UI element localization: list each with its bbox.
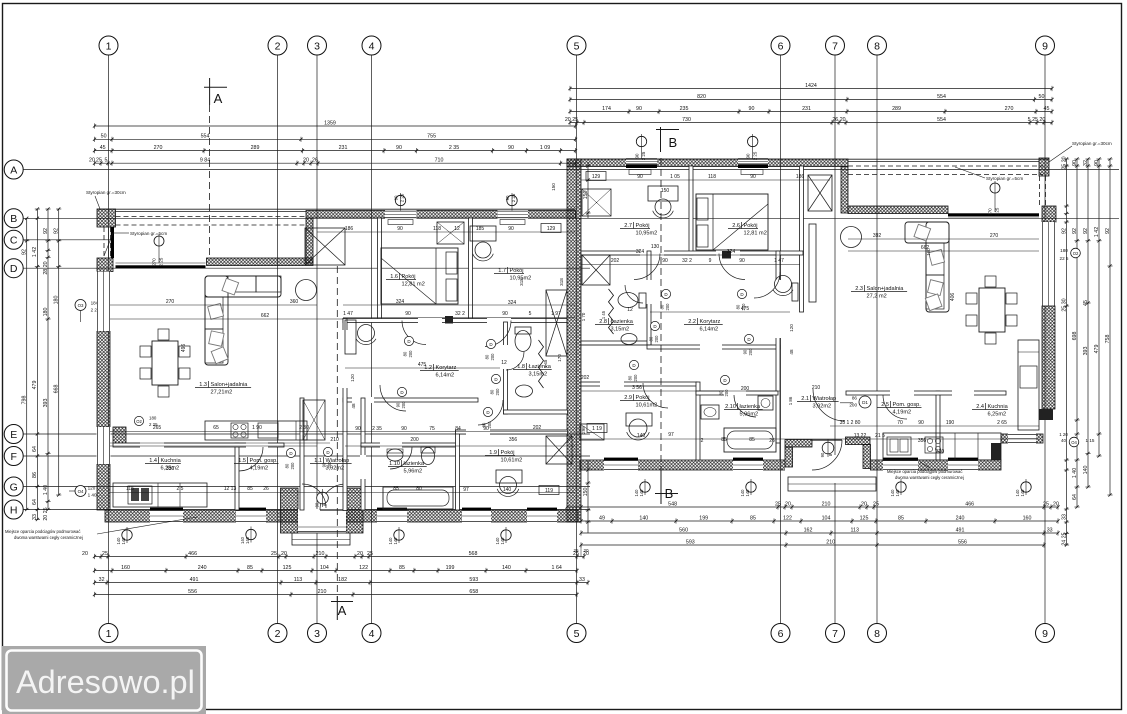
grid row C circle [4,230,23,249]
section A dashed line upper [209,105,211,258]
svg-text:140: 140 [1020,489,1025,497]
grid column 2 bottom circle [268,624,287,643]
svg-text:2: 2 [275,628,281,640]
svg-text:4: 4 [369,40,375,52]
svg-text:20 25: 20 25 [43,507,49,520]
unit1 wall bed1.6/bed1.7 [469,218,473,320]
svg-text:240: 240 [956,515,965,521]
svg-text:200: 200 [633,374,638,382]
svg-text:45: 45 [100,145,106,151]
svg-text:20: 20 [583,548,589,553]
grid row F line [23,455,590,457]
svg-text:84: 84 [455,426,461,432]
unit2 interior dimension texts [581,172,1007,456]
svg-text:92: 92 [54,228,60,234]
unit1 wall wiatrolap left [300,398,304,510]
unit2 terrace roof dashed [848,166,1046,206]
svg-text:200: 200 [410,437,419,443]
unit1 xbox room1.9 [546,436,572,464]
unit2 bottom wall window 1 [604,458,638,471]
svg-text:1 45: 1 45 [601,310,606,319]
svg-text:1.10: 1.10 [389,461,400,467]
unit1 chimney block [445,316,453,324]
svg-text:12,81 m2: 12,81 m2 [402,282,425,288]
svg-text:90: 90 [1072,160,1078,166]
svg-text:2 25: 2 25 [400,193,405,202]
section A top marker [204,78,227,106]
svg-text:26: 26 [263,486,269,492]
svg-text:120: 120 [789,324,794,332]
svg-text:289: 289 [892,106,901,112]
svg-text:210: 210 [316,551,325,557]
svg-text:820: 820 [697,94,706,100]
unit2 shower bath2.8 [582,255,610,285]
svg-text:180: 180 [43,308,49,317]
room label 1.1 [310,457,352,472]
svg-text:140: 140 [634,489,639,497]
svg-text:26 20: 26 20 [832,117,845,123]
svg-text:202: 202 [533,425,542,431]
svg-text:324: 324 [636,249,645,255]
grid column 3 top circle [308,36,327,55]
svg-text:593: 593 [686,539,695,545]
unit1 sink bath1.8 [516,385,533,397]
svg-text:1 40: 1 40 [43,485,49,495]
svg-text:210: 210 [330,437,339,443]
grid row F circle [4,447,23,466]
svg-text:658: 658 [469,589,478,595]
svg-text:25 20: 25 20 [1061,156,1067,169]
svg-text:2 35: 2 35 [449,145,459,151]
svg-text:G: G [10,481,18,493]
svg-text:140: 140 [502,565,511,571]
unit1 toilet bath1.8 [515,327,531,352]
svg-text:86: 86 [32,472,38,478]
svg-text:Styropian gr.=5cm: Styropian gr.=5cm [130,231,167,236]
svg-text:160: 160 [1023,515,1032,521]
svg-text:2 5: 2 5 [177,486,184,492]
svg-text:80: 80 [485,354,490,359]
svg-text:D: D [10,263,18,275]
svg-text:26: 26 [312,158,318,164]
grid row H line [23,509,590,511]
svg-text:85: 85 [721,437,727,443]
svg-text:85: 85 [247,486,253,492]
svg-text:łazienka: łazienka [740,404,761,410]
unit1 entrance recess walls [281,488,364,533]
svg-text:45: 45 [1044,106,1050,112]
svg-text:556: 556 [958,539,967,545]
unit2 door bed2.6 [719,254,747,311]
svg-text:27,21m2: 27,21m2 [211,390,233,396]
svg-text:491: 491 [956,527,965,533]
unit1 salon glazing vertical [109,227,115,258]
svg-text:90: 90 [508,226,514,232]
unit1 entrance door arc [320,484,346,510]
note podmurowka right [887,462,964,480]
svg-text:B: B [669,135,678,150]
svg-text:25: 25 [873,501,879,507]
svg-text:2.8: 2.8 [599,319,607,325]
mid dim column party top [551,162,591,218]
svg-text:140: 140 [500,537,505,545]
unit1 door kitchen [239,447,263,471]
svg-text:324: 324 [396,299,405,305]
svg-text:393: 393 [43,399,49,408]
grid line 5 [576,55,578,624]
unit2 top exterior wall [567,159,848,167]
svg-text:20: 20 [89,158,95,164]
room label 2.7 [620,222,657,237]
unit1 top wall window W2 [498,210,529,225]
svg-text:2 35: 2 35 [372,426,382,432]
svg-text:330: 330 [166,466,175,472]
unit2 bottom wall window 3 [883,458,918,471]
svg-text:270: 270 [990,233,999,239]
svg-text:12: 12 [454,226,460,232]
unit2 wiatrolap inner door arc [813,389,845,421]
svg-text:33: 33 [1061,514,1067,520]
svg-text:9: 9 [1042,40,1048,52]
unit2 dining table [966,276,1017,344]
svg-text:2 25: 2 25 [995,207,1000,216]
svg-text:4,19m2: 4,19m2 [250,466,269,472]
unit1 wall kitchen/pomgosp [235,443,239,510]
grid column 5 bottom circle [567,624,586,643]
svg-text:dwoma warstwami cegły ceramicz: dwoma warstwami cegły ceramicznej [895,475,964,480]
svg-text:12,81 m2: 12,81 m2 [744,231,767,237]
room label 2.10 [724,403,763,418]
note podmurowka left [5,517,197,540]
svg-text:1: 1 [106,40,112,52]
dimension row left-bottom fine [93,565,579,573]
svg-text:118: 118 [433,226,441,232]
svg-text:6: 6 [778,628,784,640]
svg-text:1.7: 1.7 [498,268,506,274]
svg-text:85: 85 [750,515,756,521]
unit2 top wall window W2 [738,158,768,175]
unit1 terrace roof edge lines [97,209,575,211]
svg-text:186: 186 [796,174,805,180]
svg-text:140: 140 [637,433,646,439]
svg-text:698: 698 [1072,332,1078,341]
svg-text:593: 593 [469,577,478,583]
svg-text:90: 90 [636,106,642,112]
svg-text:80: 80 [416,486,422,492]
svg-text:50: 50 [1039,94,1045,100]
svg-text:80: 80 [285,463,290,468]
svg-text:182: 182 [338,577,347,583]
svg-text:4: 4 [369,628,375,640]
svg-text:80: 80 [490,389,495,394]
grid column 4 bottom circle [362,624,381,643]
svg-text:1.3: 1.3 [199,382,207,388]
svg-text:dwoma warstwami cegły ceramicz: dwoma warstwami cegły ceramicznej [14,535,83,540]
svg-text:O3: O3 [78,303,84,308]
svg-text:Salon+jadalnia: Salon+jadalnia [867,286,905,292]
svg-text:92: 92 [1083,228,1089,234]
grid column 5 top circle [567,36,586,55]
svg-text:1.8: 1.8 [517,364,525,370]
svg-text:90: 90 [749,106,755,112]
svg-text:90: 90 [502,311,508,317]
svg-text:25: 25 [102,551,108,557]
svg-text:Kuchnia: Kuchnia [988,404,1009,410]
svg-text:49: 49 [599,515,605,521]
svg-text:1 42: 1 42 [1094,227,1100,237]
unit1 door corridor-salon [350,374,407,411]
unit2 door bath2.8 [625,285,660,343]
unit1 kitchen peninsula counter [205,421,307,440]
grid column 4 top circle [362,36,381,55]
svg-text:548: 548 [668,501,677,507]
svg-text:1 47: 1 47 [343,311,353,317]
room label 2.8 [595,318,634,333]
unit1 top wall window W1 [385,210,417,225]
unit2 kitchen step block [991,443,1001,460]
dimension row left-bottom offsets [82,551,589,559]
svg-text:129: 129 [592,174,601,180]
svg-text:5 25 20: 5 25 20 [1028,117,1046,123]
left dim column 1 [22,217,30,511]
grid row A circle [4,160,23,179]
grid row G line [23,486,590,488]
grid row B line [23,217,1119,219]
svg-text:496: 496 [181,344,187,353]
svg-text:5,96m2: 5,96m2 [404,469,423,475]
svg-text:200: 200 [654,335,659,343]
grid column 1 bottom circle [99,624,118,643]
svg-text:1 70: 1 70 [581,312,586,321]
svg-text:140: 140 [740,489,745,497]
svg-text:3 56: 3 56 [632,385,642,391]
grid row A line [23,169,1119,171]
svg-text:186: 186 [345,226,354,232]
svg-text:E: E [10,429,17,441]
unit2 entrance steps [788,477,876,491]
svg-text:202: 202 [611,258,620,264]
svg-text:491: 491 [190,577,199,583]
svg-text:710: 710 [435,158,444,164]
grid column 6 bottom circle [771,624,790,643]
svg-text:140: 140 [495,537,500,545]
unit1 wall 1.10/1.9 [456,430,460,510]
svg-text:80: 80 [403,351,408,356]
unit1 round side table [296,280,317,301]
svg-text:6: 6 [778,40,784,52]
unit2 desk chair room2.7 [648,186,678,218]
svg-text:90: 90 [508,145,514,151]
svg-text:97: 97 [668,432,674,438]
svg-text:3: 3 [314,40,320,52]
svg-text:210: 210 [812,385,821,391]
svg-text:85: 85 [247,565,253,571]
unit1 interior dim lines [110,232,575,493]
svg-text:1 86: 1 86 [788,396,793,405]
svg-text:2 25: 2 25 [511,193,516,202]
room label 1.2 [420,364,459,379]
svg-text:554: 554 [937,117,946,123]
svg-text:130: 130 [651,244,660,250]
unit2 wall 2.9/2.10 [696,382,700,460]
svg-text:475: 475 [741,306,750,312]
svg-text:120: 120 [88,486,96,491]
unit1 salon sofa dim [181,344,187,353]
svg-text:35 1 2 80: 35 1 2 80 [840,420,861,426]
svg-text:90: 90 [405,311,411,317]
unit2 top wall window marker 2 [746,134,758,160]
grid row D circle [4,259,23,278]
svg-text:140: 140 [388,537,393,545]
section A dashed line lower [336,266,338,600]
svg-text:200: 200 [665,303,670,311]
svg-text:180: 180 [149,416,157,421]
unit1 desk chair room1.7 [470,226,496,261]
svg-text:140: 140 [639,515,648,521]
svg-text:27,2 m2: 27,2 m2 [867,294,887,300]
svg-text:32 2: 32 2 [682,258,692,264]
unit2 salon glazing horizontal [948,213,1039,218]
unit2 bottom wall column markers [634,479,1031,497]
svg-text:65: 65 [213,425,219,431]
right dim column 5 [1105,157,1113,496]
svg-text:25: 25 [573,548,579,553]
svg-text:25: 25 [1043,501,1049,507]
svg-text:2.4: 2.4 [976,404,984,410]
svg-text:270: 270 [154,145,163,151]
unit1 wall hall vertical [342,319,348,511]
room label 1.7 [494,267,531,282]
left dim column 4 [54,207,62,496]
unit1 terrace roof dashed [104,217,306,259]
svg-text:80: 80 [660,304,665,309]
unit1 radiator bath1.8 [539,340,563,388]
svg-text:1 97: 1 97 [551,311,561,317]
unit1 top wall window marker 2 [505,193,517,211]
svg-text:200: 200 [724,389,729,397]
svg-text:48: 48 [351,403,356,409]
svg-text:1.5: 1.5 [238,458,246,464]
svg-text:64: 64 [32,446,38,452]
unit2 salon wardrobe [808,175,832,302]
svg-text:B: B [665,486,674,501]
svg-text:Pokój: Pokój [510,268,524,274]
svg-text:80: 80 [628,375,633,380]
unit2 toilet bath2.8 [618,293,646,309]
grid row B circle [4,209,23,228]
unit1 wall kitchen top [113,442,284,448]
svg-text:20: 20 [785,501,791,507]
svg-text:A: A [214,91,223,106]
dimension row right-bottom fine [579,515,1059,523]
svg-text:Miejsce oparcia podciągów podm: Miejsce oparcia podciągów podmurować [887,469,962,474]
unit1 armchair room1.9 [497,477,519,497]
unit1 entrance recess clear [298,509,346,533]
svg-text:392: 392 [873,233,882,239]
svg-text:3,92m2: 3,92m2 [326,466,345,472]
svg-text:140: 140 [890,489,895,497]
window marker O2 right [1060,248,1081,261]
svg-text:90: 90 [635,153,640,158]
svg-text:115: 115 [126,486,134,492]
svg-text:Salon+jadalnia: Salon+jadalnia [211,382,249,388]
svg-text:O4: O4 [78,489,84,494]
svg-text:64: 64 [32,499,38,505]
right dim column 2 [1072,157,1080,508]
grid line 6 [780,55,782,624]
svg-text:406: 406 [950,293,956,302]
svg-text:568: 568 [469,551,478,557]
svg-text:85: 85 [393,486,399,492]
svg-text:8: 8 [874,40,880,52]
svg-text:150: 150 [661,188,670,194]
unit1 wall salon/bed1.6 [378,218,382,320]
svg-text:668: 668 [54,385,60,394]
dimension row right-top 820/554/50 [568,94,1053,102]
svg-text:85: 85 [749,437,755,443]
svg-text:O2: O2 [1073,251,1079,256]
svg-text:662: 662 [261,313,270,319]
svg-text:90: 90 [396,402,401,407]
grid column 8 top circle [868,36,887,55]
svg-text:Styropian gr.=30cm: Styropian gr.=30cm [1072,141,1112,146]
svg-text:1 09: 1 09 [540,145,550,151]
unit2 door kitchen [883,395,907,419]
svg-text:393: 393 [1083,347,1089,356]
svg-text:90: 90 [401,426,407,432]
unit1 dim 318 rotated [519,278,586,434]
unit1 closet room1.6 [437,222,464,244]
grid column 9 top circle [1036,36,1055,55]
svg-text:86: 86 [852,396,858,401]
svg-text:Styropian gr.=30cm: Styropian gr.=30cm [86,190,126,195]
svg-text:90: 90 [315,502,320,507]
svg-text:200: 200 [495,388,500,396]
svg-text:1 40: 1 40 [1072,468,1078,478]
svg-text:Korytarz: Korytarz [700,319,721,325]
svg-text:730: 730 [682,117,691,123]
unit2 kitchen step window [1008,434,1036,444]
svg-text:92: 92 [22,249,28,255]
grid row H circle [4,500,23,519]
unit1 left wall segment 1 [97,331,110,427]
room label 2.2 [684,318,723,333]
unit2 armchair room2.9 [627,419,650,440]
svg-text:33: 33 [32,514,38,520]
unit1 door bath1.8 [490,352,524,396]
svg-text:479: 479 [1094,345,1100,354]
svg-text:90: 90 [483,426,489,432]
unit1 bottom wall window 4 [462,508,491,523]
note styropian 5cm right [955,167,1023,181]
grid column 6 top circle [771,36,790,55]
svg-text:5: 5 [574,628,580,640]
svg-text:1 90: 1 90 [252,425,262,431]
grid line 2 [277,55,279,624]
svg-text:122: 122 [783,515,792,521]
svg-text:24 25: 24 25 [1061,532,1067,545]
svg-text:755: 755 [427,134,436,140]
unit2 door wiatrolap [779,443,781,460]
unit2 right wall block bottom [1039,409,1053,420]
svg-text:Pokój: Pokój [636,223,650,229]
svg-text:170: 170 [557,354,562,362]
unit1 door bed1.6 [402,321,426,358]
svg-text:1.6: 1.6 [390,274,398,280]
svg-text:90: 90 [746,153,751,158]
svg-text:Pom. gosp.: Pom. gosp. [250,458,279,464]
party wall between units [567,159,581,522]
